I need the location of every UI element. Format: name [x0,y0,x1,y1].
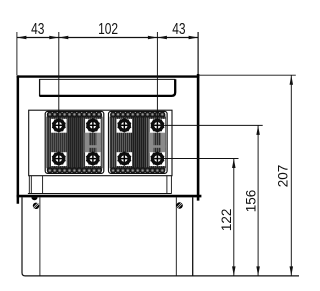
panel left edge lower lines [28,176,30,194]
module U1 terminal screw c1r1 [51,118,67,133]
module U2 terminal screw c2r1 [150,118,166,133]
dim arrow right outward [189,36,199,40]
dim arrow left outward [17,36,27,40]
module U1 hatch lines [48,117,100,168]
lower box right edge [192,197,194,276]
module U1 terminal screw c2r2 [85,151,101,166]
module U1 bottom scallops [47,168,52,173]
dim arrows at x=157.4 [148,36,158,40]
extension line left (body left edge) [16,32,18,75]
extension line to screw col 4 [156,32,158,119]
module U2 top scallops [111,112,116,117]
body left edge [17,75,20,203]
module U1 fin block [47,117,102,168]
svg-text:156: 156 [244,190,259,213]
support base line [28,193,172,195]
module U2 hatch lines [112,117,164,168]
leader from screw row2 to 122 dim [158,158,239,160]
lid top inner line [39,78,175,80]
flange bar [17,195,202,198]
label 43 left [31,19,44,37]
module U1 terminal screw c1r2 [51,151,67,166]
module U1 channel [85,133,90,153]
module U1 terminal screw c2r1 [85,118,101,133]
module U2 bottom scallops [111,168,116,173]
module U2 terminal screw c1r2 [117,151,133,166]
module U2 terminal screw c1r1 [117,118,133,133]
module support left vertical [42,176,44,194]
svg-text:207: 207 [276,165,291,188]
svg-text:102: 102 [98,19,118,37]
svg-text:43: 43 [172,19,185,37]
svg-text:43: 43 [31,19,44,37]
module U2 terminal screw c2r2 [150,151,166,166]
dim 156 vertical [257,125,259,276]
top dimension line [17,37,198,39]
module U2 channel [149,133,154,153]
lid left vertical [39,79,41,96]
module U1 body [45,111,104,173]
body top edge [17,75,200,77]
dim 122 vertical [233,159,235,276]
panel right edge lower line [170,176,172,194]
module U1 scallop strips [47,114,102,117]
extension line right (over body right edge) [197,32,199,74]
lower box inner right vertical [175,197,177,276]
small screw left [33,203,39,209]
extension line to screw col 1 [58,32,60,119]
lid bottom with rounded right corner [39,79,175,96]
dim 207 vertical [290,75,292,276]
leader from screw row1 to 156 dim [158,124,263,126]
label 43 right [172,19,185,37]
module U2 fin block [110,117,165,168]
module U2 body [109,111,168,173]
top reference line to 207 dim [200,74,296,76]
dim arrows at x=58.8 [49,36,59,40]
module U2 scallop strips [110,114,165,117]
lower box inner left vertical [39,197,41,276]
svg-text:122: 122 [219,209,234,232]
label 102 [98,19,118,37]
flange bump left [31,197,37,200]
body right edge [197,74,200,201]
lower box outline with rounded bottom-left, bottom line continues as dim base [22,197,299,276]
panel rectangle [29,110,172,176]
module U1 top scallops [47,112,52,117]
small screw right [176,202,182,208]
module support right vertical [166,176,168,194]
